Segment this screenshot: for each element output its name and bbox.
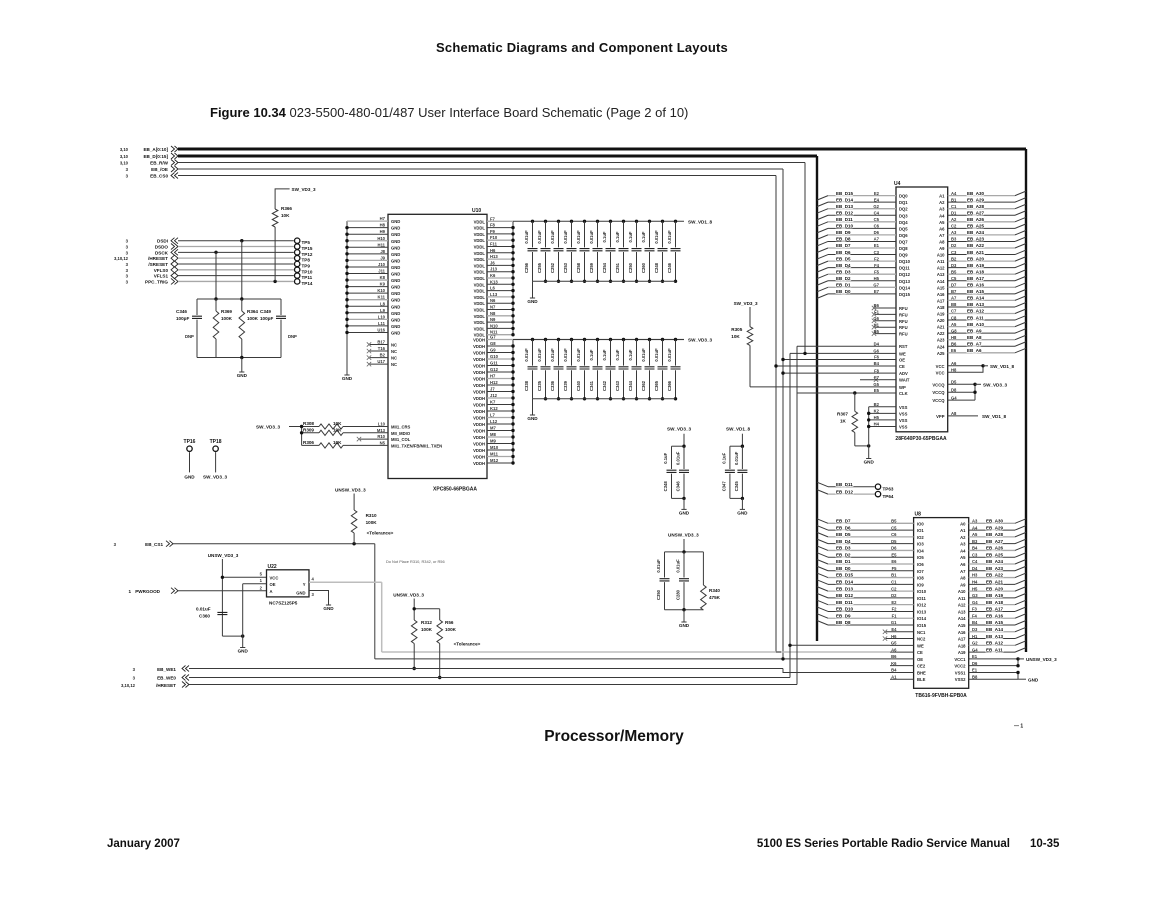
ic U8 body [914, 518, 969, 689]
wire U10 VDDH bus vertical [512, 340, 514, 464]
svg-text:B7: B7 [951, 289, 957, 294]
svg-text:100K: 100K [221, 316, 233, 321]
svg-text:A7: A7 [960, 569, 966, 574]
svg-text:DNP: DNP [288, 334, 297, 339]
U10 pin L10 GND [347, 318, 388, 320]
svg-text:EB_A27: EB_A27 [986, 539, 1004, 544]
wire rail top of RC network [197, 298, 281, 300]
U10 pin L6 VDDL [487, 290, 513, 292]
capacitor C366 0.01uF [674, 338, 677, 341]
wire EB_D5 bus entry [817, 261, 828, 266]
ground symbol U22 GND [326, 604, 331, 606]
svg-text:GND: GND [679, 511, 690, 516]
U4 pin D6 DQ6 net EB_D9 [828, 234, 896, 236]
svg-text:EB_A18: EB_A18 [967, 269, 985, 274]
svg-text:D2: D2 [951, 243, 957, 248]
svg-text:PWRGOOD: PWRGOOD [135, 589, 160, 594]
svg-text:C8: C8 [951, 315, 957, 320]
svg-text:C345: C345 [734, 481, 739, 492]
svg-text:CE: CE [899, 364, 905, 369]
svg-text:A17: A17 [958, 637, 966, 642]
svg-text:EB_A29: EB_A29 [967, 197, 985, 202]
svg-text:EB_D14: EB_D14 [836, 580, 854, 585]
svg-text:A1: A1 [960, 528, 966, 533]
junction rail top at R369 [214, 297, 217, 300]
svg-text:VCCQ: VCCQ [932, 382, 945, 387]
svg-text:VFLS0: VFLS0 [154, 268, 169, 273]
svg-text:F9: F9 [490, 229, 496, 234]
U4 pin F4 DQ11 net EB_D4 [828, 267, 896, 269]
svg-text:D5: D5 [951, 380, 957, 385]
svg-text:F8: F8 [874, 368, 880, 373]
svg-text:GND: GND [391, 239, 400, 244]
svg-text:VDDL: VDDL [474, 276, 486, 281]
svg-text:VDDH: VDDH [473, 377, 485, 382]
svg-text:NC7SZ125P5: NC7SZ125P5 [269, 601, 298, 606]
svg-text:T16: T16 [378, 346, 386, 351]
wire EB_D1 bus entry [817, 287, 828, 292]
svg-text:— 1: — 1 [1014, 724, 1023, 730]
svg-text:A13: A13 [958, 609, 966, 614]
svg-text:/SRESET: /SRESET [148, 262, 168, 267]
U10 pin U17 NC [370, 363, 388, 365]
wire UNSW group top rail [665, 551, 704, 553]
svg-text:GND: GND [391, 245, 400, 250]
svg-text:A3: A3 [951, 230, 957, 235]
svg-text:EB_D5: EB_D5 [836, 532, 851, 537]
svg-text:H4: H4 [874, 422, 880, 427]
svg-text:January 2007: January 2007 [107, 838, 180, 850]
wire EB_A25 bus entry [1015, 224, 1026, 229]
svg-text:EB_D8: EB_D8 [836, 237, 851, 242]
svg-text:EB_D6: EB_D6 [836, 250, 851, 255]
svg-text:Schematic Diagrams and Compone: Schematic Diagrams and Component Layouts [436, 40, 728, 55]
svg-text:A1: A1 [939, 194, 945, 199]
junction R312 on EB_WE1 [413, 667, 416, 670]
svg-text:E4: E4 [874, 197, 880, 202]
svg-text:C7: C7 [951, 309, 957, 314]
wire U4 /WE control [790, 352, 880, 354]
svg-text:F7: F7 [490, 216, 496, 221]
svg-text:GND: GND [391, 252, 400, 257]
svg-text:TP9: TP9 [302, 263, 311, 268]
svg-text:EB_A29: EB_A29 [986, 525, 1004, 530]
svg-text:D5: D5 [891, 539, 897, 544]
svg-text:VSS1: VSS1 [955, 670, 966, 675]
wire EB_D7 bus entry U8 [817, 519, 828, 524]
svg-text:IO7: IO7 [917, 569, 924, 574]
resistor R56 100K [437, 620, 443, 644]
svg-text:H9: H9 [380, 229, 386, 234]
svg-text:A8: A8 [951, 411, 957, 416]
svg-text:SW_VD1_8: SW_VD1_8 [990, 364, 1014, 369]
U10 pin N10 VDDL [487, 327, 513, 329]
svg-text:G3: G3 [972, 593, 978, 598]
svg-text:EB_D4: EB_D4 [836, 539, 851, 544]
svg-text:A19: A19 [937, 312, 945, 317]
svg-text:EB_D11: EB_D11 [836, 482, 853, 487]
svg-text:10-35: 10-35 [1030, 838, 1060, 850]
svg-text:B2: B2 [380, 353, 386, 358]
svg-text:M12: M12 [490, 458, 499, 463]
svg-text:IO11: IO11 [917, 596, 927, 601]
U22 pin 1 OE wire [243, 583, 267, 585]
svg-text:EB_A22: EB_A22 [967, 243, 985, 248]
svg-text:XPC850-66PBGAA: XPC850-66PBGAA [433, 487, 477, 493]
svg-text:C342: C342 [602, 380, 607, 391]
wire EB_A30 bus entry U8 right [1015, 519, 1026, 524]
svg-text:A13: A13 [937, 272, 945, 277]
svg-text:B1: B1 [951, 197, 957, 202]
svg-text:C341: C341 [589, 380, 594, 391]
svg-text:VDDH: VDDH [473, 461, 485, 466]
svg-text:10K: 10K [333, 427, 342, 432]
svg-text:C253: C253 [563, 262, 568, 273]
wire PPC_TRIG up to R366 [274, 227, 276, 281]
svg-text:OE: OE [899, 358, 905, 363]
svg-text:DQ14: DQ14 [899, 285, 911, 290]
wire EB_A13 bus entry [1015, 302, 1026, 307]
capacitor C349 100pF [280, 299, 282, 315]
svg-text:C246: C246 [667, 262, 672, 273]
svg-text:J9: J9 [380, 255, 385, 260]
svg-text:ADV: ADV [899, 371, 908, 376]
svg-text:TP16: TP16 [184, 439, 196, 445]
svg-text:0.01uF: 0.01uF [524, 230, 529, 244]
wire EB_WE0 horizontal [189, 677, 790, 679]
svg-text:H5: H5 [874, 415, 880, 420]
svg-text:F8: F8 [490, 223, 496, 228]
svg-text:100pF: 100pF [176, 316, 189, 321]
svg-text:EB_D12: EB_D12 [836, 593, 854, 598]
svg-text:TP12: TP12 [302, 252, 313, 257]
svg-text:DQ13: DQ13 [899, 279, 911, 284]
wire EB_/OE horizontal [178, 168, 783, 170]
svg-text:0.1uF: 0.1uF [602, 349, 607, 360]
svg-text:EB_A25: EB_A25 [986, 552, 1004, 557]
svg-text:NC1: NC1 [917, 630, 926, 635]
bus entry arrow EB_A[0:10] [171, 146, 178, 152]
svg-text:DQ12: DQ12 [899, 272, 911, 277]
wire U4 WP control [750, 386, 880, 388]
svg-text:SW_VD1_8: SW_VD1_8 [726, 427, 750, 432]
svg-text:VDDH: VDDH [473, 409, 485, 414]
capacitor C252 0.01uF [557, 220, 560, 223]
wire U4 /OE control [783, 359, 880, 361]
svg-text:EB_A24: EB_A24 [986, 559, 1004, 564]
U4 pin F6 OE [880, 359, 896, 361]
svg-text:C280: C280 [676, 589, 681, 600]
svg-text:M11: M11 [490, 452, 499, 457]
svg-text:0.1uF: 0.1uF [721, 452, 726, 463]
U10 pin G11 VDDH [487, 365, 513, 367]
svg-text:EB_A22: EB_A22 [986, 573, 1004, 578]
svg-text:B5: B5 [951, 269, 957, 274]
svg-text:TP10: TP10 [302, 269, 313, 274]
resistor R312 100K [411, 620, 417, 644]
svg-text:G2: G2 [873, 204, 879, 209]
svg-text:F3: F3 [972, 607, 978, 612]
svg-text:DSCK: DSCK [155, 250, 169, 255]
port arrow EB_CS1 [166, 541, 173, 547]
svg-text:M13: M13 [377, 428, 386, 433]
svg-text:RFU: RFU [899, 325, 908, 330]
wire SW_VD1_8 bottom rail [730, 497, 743, 499]
port arrow PPC_TRIG [171, 278, 178, 284]
svg-text:VDDL: VDDL [474, 238, 486, 243]
wire EB_D9 bus entry [817, 235, 828, 240]
svg-text:EB_A6: EB_A6 [967, 348, 982, 353]
svg-text:K8: K8 [380, 275, 386, 280]
svg-text:100K: 100K [247, 316, 259, 321]
svg-text:C250: C250 [628, 262, 633, 273]
U10 pin G7 VDDH [487, 339, 513, 341]
svg-text:SW_VD3_3: SW_VD3_3 [667, 427, 691, 432]
svg-text:H1: H1 [874, 322, 880, 327]
svg-text:F2: F2 [874, 256, 880, 261]
wire R307 to ground rail [855, 445, 869, 447]
wire MII pull-up rail vertical [301, 427, 303, 446]
U10 pin H13 VDDL [487, 258, 513, 260]
U10 pin K13 VDDL [487, 283, 513, 285]
svg-text:H6: H6 [490, 248, 496, 253]
svg-text:G11: G11 [490, 361, 498, 366]
svg-text:EB_A27: EB_A27 [967, 210, 985, 215]
svg-text:B8: B8 [951, 302, 957, 307]
svg-text:U16: U16 [377, 327, 385, 332]
svg-text:GND: GND [679, 623, 690, 628]
U8 pin B5 IO0 net EB_D7 [828, 522, 914, 524]
capacitor C251 0.1uF [622, 220, 625, 223]
svg-text:IO12: IO12 [917, 603, 927, 608]
capacitor C280 0.01uF [683, 552, 685, 578]
svg-text:/HRESET: /HRESET [156, 683, 176, 688]
svg-text:VFLS1: VFLS1 [154, 274, 169, 279]
U4 pin C4 DQ3 net EB_D12 [828, 214, 896, 216]
svg-text:D4: D4 [972, 566, 978, 571]
svg-text:EB_A14: EB_A14 [967, 296, 985, 301]
svg-text:C259: C259 [589, 262, 594, 273]
svg-text:L7: L7 [490, 413, 496, 418]
U4 pin C6 DQ5 net EB_D10 [828, 227, 896, 229]
svg-text:OE: OE [270, 582, 276, 587]
U10 pin K12 VDDH [487, 410, 513, 412]
svg-text:A4: A4 [939, 213, 945, 218]
svg-text:SW_VD3_3: SW_VD3_3 [983, 382, 1007, 387]
svg-text:J7: J7 [490, 387, 495, 392]
svg-text:U17: U17 [377, 359, 385, 364]
svg-text:100pF: 100pF [260, 316, 273, 321]
svg-text:E2: E2 [874, 191, 880, 196]
resistor R307 1K [854, 393, 856, 411]
test point TP9 [295, 261, 300, 266]
svg-text:B5: B5 [874, 329, 880, 334]
wire TP18 to SW_VD3_3 [215, 452, 217, 472]
svg-text:EB_A11: EB_A11 [967, 315, 984, 320]
capacitor C360 0.01uF [217, 612, 227, 614]
svg-text:EB_A26: EB_A26 [986, 546, 1004, 551]
svg-text:L8: L8 [380, 301, 386, 306]
port arrow EB_WE1 [182, 666, 189, 672]
wire U22 OE to ground [242, 584, 244, 648]
svg-text:G8: G8 [490, 341, 496, 346]
svg-text:TP63: TP63 [883, 487, 894, 492]
wire U8 /CE stub from trunk [776, 651, 781, 653]
svg-text:L11: L11 [378, 321, 386, 326]
svg-text:EB_D6: EB_D6 [836, 525, 851, 530]
svg-text:EB_D12: EB_D12 [836, 210, 854, 215]
capacitor C345 0.01uF [741, 446, 743, 469]
svg-text:GND: GND [342, 376, 353, 381]
ground symbol U10 GND bus [344, 374, 349, 376]
svg-text:EB_D3: EB_D3 [836, 546, 851, 551]
U4 pin G7 DQ14 net EB_D1 [828, 286, 896, 288]
U8 pin F1 IO14 net EB_D9 [828, 617, 914, 619]
wire EB_D15 bus entry [817, 196, 828, 201]
power rail SW_VD1_8 [513, 220, 684, 222]
svg-text:C6: C6 [874, 224, 880, 229]
svg-text:GND: GND [391, 258, 400, 263]
wire PPC_TRIG to test point [178, 280, 294, 282]
svg-text:VDDH: VDDH [473, 442, 485, 447]
svg-text:D3: D3 [972, 627, 978, 632]
svg-text:EB_D9: EB_D9 [836, 613, 851, 618]
wire DSDI down to R364 network [241, 241, 243, 299]
U10 pin L12 VDDH [487, 423, 513, 425]
svg-text:G4: G4 [972, 600, 978, 605]
svg-text:IO14: IO14 [917, 616, 927, 621]
svg-text:NC: NC [391, 349, 397, 354]
wire EB_CS0 vertical at x=776 [775, 176, 777, 653]
U10 pin H7 GND [347, 220, 388, 222]
svg-text:N5: N5 [380, 440, 386, 445]
wire EB_D4 bus entry [817, 268, 828, 273]
U10 pin J13 VDDL [487, 271, 513, 273]
svg-text:0.01uF: 0.01uF [654, 348, 659, 362]
svg-text:VCCQ: VCCQ [932, 398, 945, 403]
svg-text:VDDL: VDDL [474, 282, 486, 287]
svg-text:VDDH: VDDH [473, 357, 485, 362]
svg-text:A12: A12 [937, 266, 945, 271]
svg-text:TP8: TP8 [302, 258, 311, 263]
wire SW_VD3_3 top rail [672, 445, 685, 447]
U8 pin B6 OE [890, 658, 914, 660]
svg-text:VCC1: VCC1 [954, 657, 966, 662]
svg-text:M9: M9 [490, 439, 496, 444]
svg-text:A15: A15 [958, 623, 966, 628]
test point TP11 [295, 273, 300, 278]
bus entry arrow EB_R/W [171, 160, 178, 166]
svg-text:GND: GND [391, 219, 400, 224]
wire R366 to SW_VD3_3 [275, 189, 290, 209]
svg-text:0.1uF: 0.1uF [615, 349, 620, 360]
wire EB_D13 bus entry U8 [817, 587, 828, 592]
wire EB_A28 bus entry [1015, 204, 1026, 209]
wire VCCQ join vertical [974, 384, 976, 400]
svg-text:IO5: IO5 [917, 555, 924, 560]
U4 pin G2 DQ2 net EB_D13 [828, 208, 896, 210]
U4 pin B4 CE [880, 365, 896, 367]
svg-text:VDDH: VDDH [473, 416, 485, 421]
svg-text:D8: D8 [951, 387, 957, 392]
svg-text:IO9: IO9 [917, 582, 924, 587]
svg-text:EB_/OE: EB_/OE [151, 167, 168, 172]
svg-text:DQ6: DQ6 [899, 233, 908, 238]
wire DSDO to test point [178, 246, 294, 248]
test point TP15 [295, 244, 300, 249]
svg-text:BLE: BLE [917, 677, 926, 682]
svg-text:C349: C349 [260, 309, 271, 314]
svg-text:0.01uF: 0.01uF [550, 230, 555, 244]
U4 pin B6 RFU no-connect [875, 307, 896, 309]
test point TP63 [875, 484, 880, 489]
svg-text:EB_A21: EB_A21 [967, 250, 985, 255]
wire EB_A20 bus entry U8 right [1015, 587, 1026, 592]
svg-text:A3: A3 [939, 207, 945, 212]
junction R56 on EB_WE0 [438, 676, 441, 679]
svg-text:VDDL: VDDL [474, 232, 486, 237]
svg-text:A11: A11 [958, 596, 966, 601]
U8 pin D2 IO11 net EB_D12 [828, 597, 914, 599]
svg-text:VPP: VPP [936, 414, 945, 419]
ground symbol cap bank 2 [530, 414, 535, 416]
U10 pin J7 VDDH [487, 391, 513, 393]
port arrow /SRESET [171, 261, 178, 267]
svg-text:A9: A9 [939, 246, 945, 251]
svg-text:N6: N6 [490, 298, 496, 303]
wire EB_D2 bus entry [817, 281, 828, 286]
svg-text:0.01uF: 0.01uF [576, 230, 581, 244]
svg-text:N9: N9 [490, 317, 496, 322]
svg-text:GND: GND [391, 304, 400, 309]
wire EB_D8 bus entry U8 [817, 621, 828, 626]
svg-text:EB_D0: EB_D0 [836, 566, 851, 571]
svg-text:C348: C348 [663, 481, 668, 492]
svg-text:C4: C4 [972, 559, 978, 564]
capacitor C259 0.01uF [596, 220, 599, 223]
ground symbol UNSW group [681, 621, 686, 623]
wire EB_/OE vertical at x=783 [782, 169, 784, 659]
svg-text:C248: C248 [654, 262, 659, 273]
svg-text:C346: C346 [176, 309, 187, 314]
svg-text:D1: D1 [951, 210, 957, 215]
svg-text:VDDH: VDDH [473, 383, 485, 388]
wire EB_D14 bus entry [817, 202, 828, 207]
capacitor C336 0.01uF [557, 338, 560, 341]
svg-text:0.01uF: 0.01uF [537, 348, 542, 362]
svg-text:VDDL: VDDL [474, 308, 486, 313]
svg-text:C339: C339 [563, 380, 568, 391]
svg-text:10K: 10K [333, 440, 342, 445]
svg-text:G4: G4 [951, 395, 957, 400]
svg-text:RFU: RFU [899, 319, 908, 324]
svg-text:G7: G7 [873, 283, 879, 288]
U10 pin M9 VDDH [487, 443, 513, 445]
svg-text:0.01uF: 0.01uF [654, 230, 659, 244]
bus EB_D trunk vertical [816, 156, 818, 641]
svg-text:K13: K13 [490, 279, 498, 284]
svg-text:H12: H12 [490, 380, 498, 385]
svg-text:K6: K6 [891, 661, 897, 666]
capacitor C365 0.01uF [661, 338, 664, 341]
bus EB_A trunk vertical right [1025, 149, 1027, 652]
test point TP64 [875, 491, 880, 496]
svg-text:DQ4: DQ4 [899, 220, 908, 225]
svg-text:C252: C252 [550, 262, 555, 273]
svg-text:R369: R369 [221, 309, 232, 314]
svg-text:IO13: IO13 [917, 609, 927, 614]
bus entry arrow EB_D[0:15] [171, 153, 178, 159]
